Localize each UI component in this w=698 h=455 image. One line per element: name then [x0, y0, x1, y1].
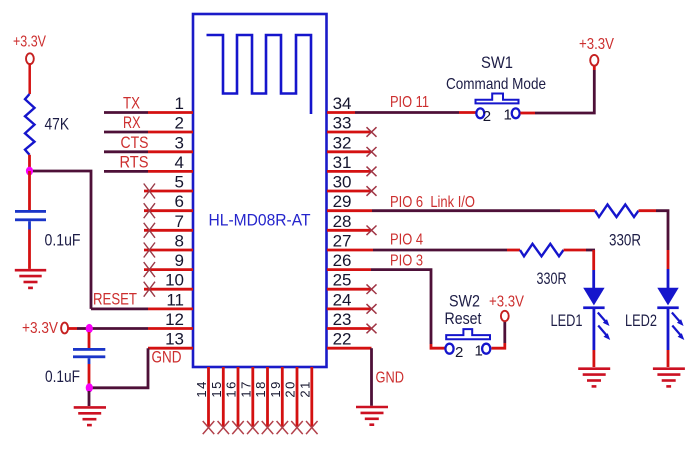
svg-text:+3.3V: +3.3V [489, 294, 524, 311]
right signal labels [390, 94, 475, 269]
svg-text:21: 21 [297, 380, 312, 397]
svg-text:15: 15 [209, 380, 224, 397]
IC U1 HL-MD08R-AT body [193, 14, 327, 367]
svg-text:3: 3 [175, 133, 184, 152]
svg-text:14: 14 [194, 380, 209, 397]
svg-text:30: 30 [333, 173, 352, 192]
svg-text:28: 28 [333, 212, 352, 231]
left pin wire 12 [89, 327, 193, 330]
svg-text:11: 11 [166, 290, 184, 309]
svg-text:18: 18 [253, 380, 268, 397]
antenna meander inside IC [207, 35, 312, 114]
switch SW1 Command Mode [446, 53, 546, 125]
svg-text:PIO 3: PIO 3 [390, 252, 423, 269]
svg-text:1: 1 [475, 342, 483, 359]
svg-text:31: 31 [333, 153, 352, 172]
left pin wires 5-10 with X no-connects [144, 184, 193, 297]
svg-text:2: 2 [175, 114, 184, 133]
bottom pin numbers 14-21 (rotated) [194, 380, 312, 397]
switch SW2 Reset [445, 292, 491, 362]
wires pins 33-30 with X [327, 127, 377, 196]
ground G3 (pin 22) [356, 407, 388, 425]
svg-text:8: 8 [175, 232, 184, 251]
svg-text:20: 20 [283, 380, 298, 397]
svg-text:CTS: CTS [121, 133, 149, 152]
ground G4 (LED1) [578, 369, 610, 387]
wire R3 to LED2 [639, 211, 669, 289]
svg-text:2: 2 [483, 108, 491, 125]
GND label for pin 22 net [376, 370, 405, 387]
svg-text:33: 33 [333, 114, 352, 133]
svg-text:1: 1 [175, 94, 184, 113]
wire pin 28 with X [327, 226, 377, 236]
ground G1 [15, 270, 46, 288]
wire pin 29 PIO 6 to resistor R3 [327, 209, 595, 212]
svg-text:9: 9 [175, 251, 184, 270]
resistor R3 330R (PIO 6) [595, 205, 641, 250]
svg-text:16: 16 [224, 380, 239, 397]
svg-text:LED2: LED2 [625, 311, 657, 330]
svg-text:32: 32 [333, 133, 352, 152]
svg-text:7: 7 [175, 212, 184, 231]
svg-text:+3.3V: +3.3V [13, 34, 46, 51]
svg-text:330R: 330R [609, 231, 641, 250]
node junction cap2 bottom [86, 383, 93, 392]
wire pin 26 PIO 3 to SW2 [327, 270, 446, 349]
ground G5 (LED2) [653, 369, 685, 387]
LED1 [551, 288, 611, 367]
capacitor C1 0.1uF [15, 171, 81, 269]
svg-text:GND: GND [152, 348, 182, 367]
svg-text:PIO 4: PIO 4 [390, 232, 423, 249]
left pin wire 13 GND [148, 347, 193, 350]
svg-text:1: 1 [504, 107, 512, 124]
svg-text:17: 17 [238, 380, 253, 397]
svg-text:27: 27 [333, 232, 352, 251]
bottom pin wires 14-21 with X no-connects [203, 367, 318, 434]
svg-text:25: 25 [333, 271, 352, 290]
svg-text:47K: 47K [45, 115, 70, 134]
resistor R2 330R (PIO 4) [520, 244, 567, 288]
svg-text:LED1: LED1 [551, 311, 583, 330]
left pin wires 1-4 [104, 113, 193, 172]
svg-text:PIO 6 Link I/O: PIO 6 Link I/O [390, 194, 475, 211]
svg-text:RESET: RESET [93, 290, 137, 309]
svg-text:0.1uF: 0.1uF [45, 367, 80, 386]
svg-text:24: 24 [333, 290, 352, 309]
wire SW2 pin1 to +3.3V [492, 321, 505, 348]
right pin numbers 34-22 [333, 94, 352, 349]
svg-text:6: 6 [175, 192, 184, 211]
svg-text:SW2: SW2 [449, 292, 480, 311]
svg-text:Reset: Reset [445, 309, 482, 328]
svg-text:2: 2 [455, 344, 463, 361]
left pin numbers 1-13 [165, 94, 184, 349]
power +3.3V top-left [13, 34, 46, 95]
wire SW1 pin1 to +3.3V [520, 66, 594, 113]
wire pin 34 PIO 11 to SW1 [327, 111, 476, 114]
svg-text:5: 5 [175, 173, 184, 192]
svg-text:TX: TX [123, 94, 140, 113]
node junction at 47K / cap1 / RESET net [26, 167, 33, 176]
svg-text:RX: RX [123, 113, 141, 132]
svg-text:RTS: RTS [120, 152, 149, 171]
svg-text:4: 4 [175, 153, 184, 172]
wire: junction down to ground G2 [88, 391, 91, 406]
svg-text:23: 23 [333, 310, 352, 329]
svg-text:12: 12 [165, 310, 184, 329]
svg-text:+3.3V: +3.3V [22, 320, 58, 337]
svg-text:+3.3V: +3.3V [579, 36, 614, 53]
svg-text:HL-MD08R-AT: HL-MD08R-AT [209, 211, 311, 230]
svg-text:26: 26 [333, 251, 352, 270]
svg-text:Command Mode: Command Mode [446, 76, 546, 93]
svg-text:GND: GND [376, 370, 405, 387]
svg-text:0.1uF: 0.1uF [45, 231, 81, 250]
left pin wire 11 RESET [91, 307, 193, 310]
wire pin 27 PIO 4 to resistor R2 [327, 249, 520, 252]
svg-text:34: 34 [333, 94, 352, 113]
power +3.3V at SW2 [489, 294, 524, 322]
wire: junction to RESET vertical [33, 171, 91, 309]
capacitor C2 0.1uF [45, 332, 105, 386]
wires pins 25-23 with X [327, 284, 377, 333]
svg-text:22: 22 [333, 330, 352, 349]
ground G2 [74, 407, 106, 425]
svg-text:SW1: SW1 [481, 53, 513, 72]
svg-text:19: 19 [268, 380, 283, 397]
resistor R1 47K [25, 94, 70, 168]
power +3.3V top-right [579, 36, 614, 66]
svg-text:330R: 330R [537, 269, 567, 288]
svg-text:13: 13 [165, 330, 184, 349]
left signal labels [93, 94, 182, 367]
wire pin 22 GND to ground [327, 348, 372, 406]
node junction pin12 net [86, 324, 93, 333]
svg-text:10: 10 [165, 271, 184, 290]
LED2 [625, 288, 684, 367]
svg-text:29: 29 [333, 192, 352, 211]
wire R2 to LED1 [564, 250, 596, 289]
power +3.3V mid-left (pin 12 net) [22, 320, 86, 337]
wire: GND net from cap2 junction up to pin 13 [89, 348, 148, 388]
svg-text:PIO 11: PIO 11 [390, 94, 429, 111]
IC U1 name label [209, 211, 311, 230]
